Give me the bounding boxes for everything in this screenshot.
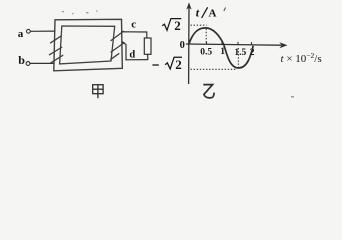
label 乙 (figure 2 caption, drawn) <box>203 85 214 98</box>
terminal a <box>27 29 31 33</box>
stray prime mark <box>224 8 226 12</box>
svg-text:b: b <box>18 53 25 67</box>
dotted line sqrt2 level to peak <box>191 24 207 26</box>
dotted line -sqrt2 level to trough <box>191 68 238 70</box>
wire d: secondary bottom to resistor bottom <box>122 42 148 60</box>
wire a to primary <box>30 30 55 32</box>
label minus sqrt2 (lower) <box>152 64 158 66</box>
sine curve i(t) <box>189 28 253 68</box>
svg-text:a: a <box>18 28 24 40</box>
svg-text:2: 2 <box>250 48 255 58</box>
svg-text:0: 0 <box>180 40 185 51</box>
primary winding L1 (left limb diagonal strokes) <box>49 36 63 63</box>
wire b to primary <box>30 62 54 64</box>
svg-text:2: 2 <box>175 57 182 72</box>
graph x-axis <box>186 44 282 45</box>
graph y-axis <box>188 5 190 85</box>
svg-text:t × 10−2/s: t × 10−2/s <box>281 51 322 65</box>
scan noise dots <box>62 11 294 98</box>
label 甲 (figure 1 caption, drawn) <box>93 85 103 99</box>
svg-text:c: c <box>131 19 136 31</box>
dotted line trough up to axis <box>237 48 239 67</box>
x-axis ticks <box>207 42 252 46</box>
terminal b <box>26 62 30 66</box>
svg-text:1.5: 1.5 <box>234 48 246 58</box>
transformer T1 core outer rectangle <box>54 19 123 71</box>
svg-text:2: 2 <box>174 18 181 33</box>
resistor R (load) <box>144 38 151 54</box>
svg-text:d: d <box>129 50 135 61</box>
svg-text:0.5: 0.5 <box>200 47 212 57</box>
transformer T1 core inner rectangle <box>60 26 115 64</box>
svg-text:A: A <box>209 8 217 20</box>
dotted line peak down to axis <box>205 29 207 44</box>
svg-text:1: 1 <box>220 47 225 57</box>
secondary winding L2 (right limb diagonal strokes) <box>110 31 124 60</box>
wire c: secondary top to resistor <box>122 32 147 38</box>
label sqrt2 (upper) <box>162 19 181 31</box>
wire resistor bottom leg <box>147 54 149 59</box>
